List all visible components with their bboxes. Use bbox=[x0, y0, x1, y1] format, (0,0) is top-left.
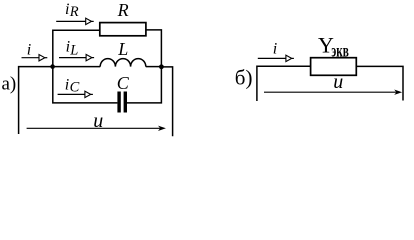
svg-text:i: i bbox=[27, 42, 31, 59]
voltage arrow u (circuit b) bbox=[264, 90, 402, 95]
wire from resistor down to right junction bbox=[146, 30, 162, 67]
wire inductor branch left bbox=[53, 66, 101, 68]
resistor R bbox=[100, 23, 146, 36]
current arrow iR bbox=[56, 18, 93, 24]
wire right terminal of circuit a bbox=[161, 67, 172, 136]
inductor L bbox=[100, 59, 146, 67]
svg-text:L: L bbox=[69, 43, 78, 59]
svg-text:а): а) bbox=[2, 74, 17, 95]
current arrow iL bbox=[59, 54, 94, 60]
wire left terminal of circuit a bbox=[19, 67, 53, 134]
wire capacitor branch right up to junction bbox=[127, 67, 161, 103]
wire from junction down to capacitor branch bbox=[53, 67, 118, 103]
wire left terminal of circuit b bbox=[257, 66, 311, 101]
wire inductor branch right bbox=[146, 66, 162, 68]
capacitor C bbox=[117, 92, 127, 113]
svg-text:R: R bbox=[69, 4, 79, 20]
node left junction bbox=[50, 64, 55, 69]
node right junction bbox=[159, 64, 164, 69]
svg-text:i: i bbox=[273, 41, 277, 58]
label iL bbox=[66, 39, 79, 59]
svg-text:C: C bbox=[70, 80, 80, 96]
svg-text:i: i bbox=[65, 1, 69, 18]
svg-text:C: C bbox=[117, 73, 130, 93]
current arrow iC bbox=[58, 91, 93, 97]
voltage arrow u (circuit a) bbox=[27, 126, 166, 131]
svg-text:i: i bbox=[65, 76, 69, 93]
current arrow i bbox=[22, 55, 48, 61]
label iC bbox=[65, 76, 80, 95]
wire right terminal of circuit b bbox=[356, 66, 403, 100]
svg-text:L: L bbox=[117, 39, 128, 59]
label Yekv bbox=[318, 33, 349, 61]
svg-text:u: u bbox=[333, 71, 343, 93]
equivalent admittance box Yekv bbox=[311, 58, 357, 76]
svg-text:u: u bbox=[93, 110, 103, 132]
wire from junction up to resistor branch bbox=[53, 30, 100, 66]
label iR bbox=[65, 1, 79, 20]
svg-text:R: R bbox=[117, 0, 129, 20]
current arrow i (circuit b) bbox=[258, 55, 294, 61]
svg-text:экв: экв bbox=[331, 42, 349, 61]
svg-text:б): б) bbox=[235, 66, 253, 90]
